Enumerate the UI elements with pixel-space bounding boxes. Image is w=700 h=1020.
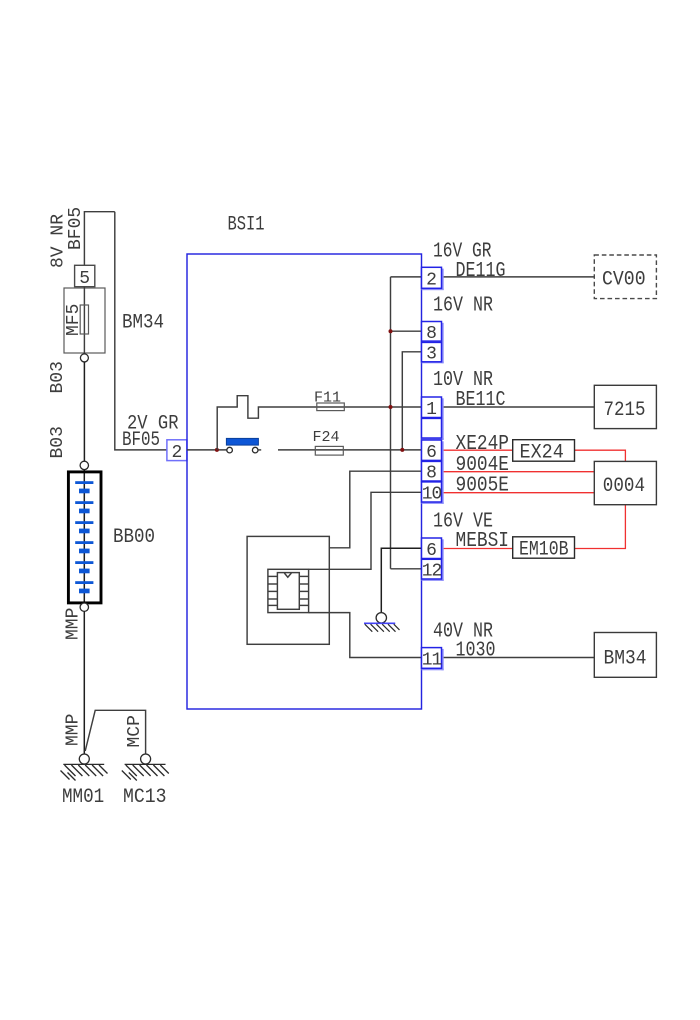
svg-text:MEBSI: MEBSI	[456, 530, 510, 553]
IC U1 body	[277, 573, 299, 610]
svg-text:BB00: BB00	[113, 526, 155, 549]
svg-text:8: 8	[426, 324, 437, 344]
svg-text:MCP: MCP	[125, 715, 145, 747]
device EX24 box	[513, 440, 575, 462]
svg-text:9005E: 9005E	[456, 474, 510, 497]
svg-text:2: 2	[426, 271, 437, 291]
wire: MCP branch to ground MC13	[85, 710, 145, 754]
connector pin 12 box	[422, 559, 442, 579]
svg-text:6: 6	[426, 541, 437, 561]
svg-text:BF05: BF05	[122, 429, 160, 452]
svg-text:MMP: MMP	[64, 714, 84, 746]
IC U1 socket box	[268, 569, 309, 612]
svg-text:BM34: BM34	[122, 312, 164, 335]
fuse F24	[315, 446, 343, 455]
svg-text:MF5: MF5	[64, 304, 84, 336]
wire: IC to pin 11 (1030)	[309, 613, 422, 658]
connector group band: pin 2	[422, 269, 444, 291]
wire: bus vertical pins 2/8/12	[390, 277, 392, 569]
svg-text:XE24P: XE24P	[456, 433, 510, 456]
svg-text:B03: B03	[48, 361, 68, 393]
node: fuse MF5 output terminal	[80, 354, 88, 362]
junction node on bus at F11 wire	[389, 405, 393, 409]
device 7215 box	[594, 385, 656, 428]
connector blank box	[422, 418, 442, 438]
svg-text:MMP: MMP	[64, 608, 84, 640]
wire: pin 1 to 7215	[442, 406, 595, 408]
wire: pin 6 MEBSI to internal ground	[381, 548, 421, 612]
ground MM01 symbol	[61, 764, 108, 780]
svg-text:0004: 0004	[603, 475, 645, 498]
wire: B03 segment to battery	[83, 362, 85, 461]
device BM34 box	[594, 633, 656, 678]
connector pin 6 box	[422, 440, 442, 460]
battery BB00 cells	[75, 481, 93, 593]
ground MC13 terminal	[141, 754, 151, 764]
IC U1 right pins	[299, 576, 308, 605]
svg-text:CV00: CV00	[602, 269, 646, 292]
svg-text:MC13: MC13	[123, 786, 167, 809]
node: battery positive terminal	[80, 461, 88, 469]
connector group band: pin 1 + blank	[422, 398, 444, 440]
svg-text:DE11G: DE11G	[456, 260, 506, 283]
svg-text:F24: F24	[313, 429, 340, 446]
svg-text:1030: 1030	[456, 639, 496, 662]
svg-text:7215: 7215	[604, 399, 646, 422]
wire: F24 feed from pin 2 to switch	[187, 449, 227, 451]
connector pin 6b box	[422, 538, 442, 559]
svg-text:BM34: BM34	[604, 647, 647, 670]
svg-text:F11: F11	[314, 390, 341, 407]
electronic module box	[247, 536, 329, 644]
svg-text:5: 5	[79, 269, 90, 289]
fuse MF5 element	[80, 305, 88, 334]
svg-text:10: 10	[422, 484, 442, 504]
switch contact terminal right	[252, 447, 258, 453]
wire: BM34 vertical down to BF05 wire	[115, 212, 167, 450]
wire: module to pin 8 (9004E)	[329, 471, 421, 548]
svg-text:EM10B: EM10B	[519, 539, 569, 562]
wire: pin 2 stub	[391, 276, 422, 278]
device 0004 box	[594, 461, 656, 504]
wire: IC to pin 10 (9005E)	[309, 492, 422, 569]
svg-text:BF05: BF05	[66, 207, 86, 250]
svg-text:16V NR: 16V NR	[433, 295, 493, 318]
red wire: pin 6 XE24P to EX24	[442, 449, 513, 451]
switch actuator branch with step to F11	[217, 396, 317, 450]
ECU BSI1 outline	[187, 254, 422, 709]
wire MMP: battery negative down to ground MM01	[83, 611, 85, 754]
svg-text:6: 6	[426, 443, 437, 463]
connector pin 5 box	[75, 265, 95, 286]
connector pin 10 box	[422, 482, 442, 502]
svg-text:11: 11	[422, 651, 442, 671]
svg-text:3: 3	[426, 345, 437, 365]
ground MM01 terminal	[79, 754, 89, 764]
wire: pin 2 to CV00	[442, 276, 595, 278]
battery BB00 internal wire	[83, 470, 85, 603]
svg-text:12: 12	[422, 562, 442, 582]
svg-text:BE11C: BE11C	[456, 389, 506, 412]
svg-text:MM01: MM01	[62, 786, 104, 809]
connector pin 2 box	[422, 267, 442, 288]
wire through fuse MF5	[83, 287, 85, 354]
wire: 8V feed from top to fuse MF5 and BM34 branch	[84, 212, 114, 266]
ground MC13 symbol	[122, 764, 169, 780]
switch contact terminal left	[227, 447, 233, 453]
red wire: 0004 bottom to EM10B	[575, 505, 626, 549]
internal ground terminal node	[376, 613, 386, 623]
device EM10B box	[513, 537, 575, 558]
connector group band: pins 6/8/10	[422, 441, 444, 504]
fuse F11	[317, 403, 345, 411]
IC U1 left pins	[268, 576, 278, 605]
wire stub after switch	[258, 449, 261, 451]
connector group band: pins 8/3	[422, 323, 444, 364]
connector pin 3 box	[422, 342, 442, 361]
switch contact bar (closed)	[226, 438, 258, 445]
svg-text:8: 8	[426, 464, 437, 484]
fuse MF5 box	[64, 288, 105, 353]
svg-text:EX24: EX24	[520, 442, 564, 465]
junction node: switch input	[215, 448, 219, 452]
wire: F24 line to pin 6	[278, 449, 422, 451]
svg-text:B03: B03	[48, 426, 68, 458]
red wire: pin 8 9004E to 0004	[442, 471, 595, 473]
connector group band: pins 6/12	[422, 539, 444, 581]
battery BB00 case	[68, 472, 101, 603]
internal ground hatching	[365, 624, 400, 632]
connector pin 8b box	[422, 461, 442, 481]
red wire: pin 6 MEBSI to EM10B	[442, 548, 513, 550]
svg-text:2: 2	[171, 443, 182, 463]
wire: pin 12 stub	[391, 568, 422, 570]
junction node pin3 branch on F24 wire	[400, 448, 404, 452]
connector pin 8 box	[422, 322, 442, 342]
connector group band: pin 11	[422, 649, 444, 670]
wire: F11 line to pin 1	[317, 406, 422, 408]
svg-text:BSI1: BSI1	[228, 214, 265, 237]
wire: pin 8 stub	[391, 330, 422, 332]
node: battery negative terminal	[80, 603, 88, 611]
svg-text:1: 1	[426, 400, 437, 420]
red wire: EX24 to 0004 top	[575, 450, 626, 461]
red wire: pin 10 9005E to 0004	[442, 492, 595, 494]
wire: pin 11 to BM34	[442, 657, 595, 659]
internal ground symbol (blue line)	[364, 622, 395, 624]
wire: pin 3 vertical branch	[402, 352, 421, 450]
device CV00 box (dashed)	[594, 255, 656, 299]
connector pin 1 box	[422, 397, 442, 418]
junction node on bus at pin 8	[389, 329, 393, 333]
IC U1 notch	[284, 573, 291, 577]
connector pin 11 box	[422, 648, 442, 669]
connector pin 2 box (BF05 into BSI1)	[167, 440, 187, 461]
